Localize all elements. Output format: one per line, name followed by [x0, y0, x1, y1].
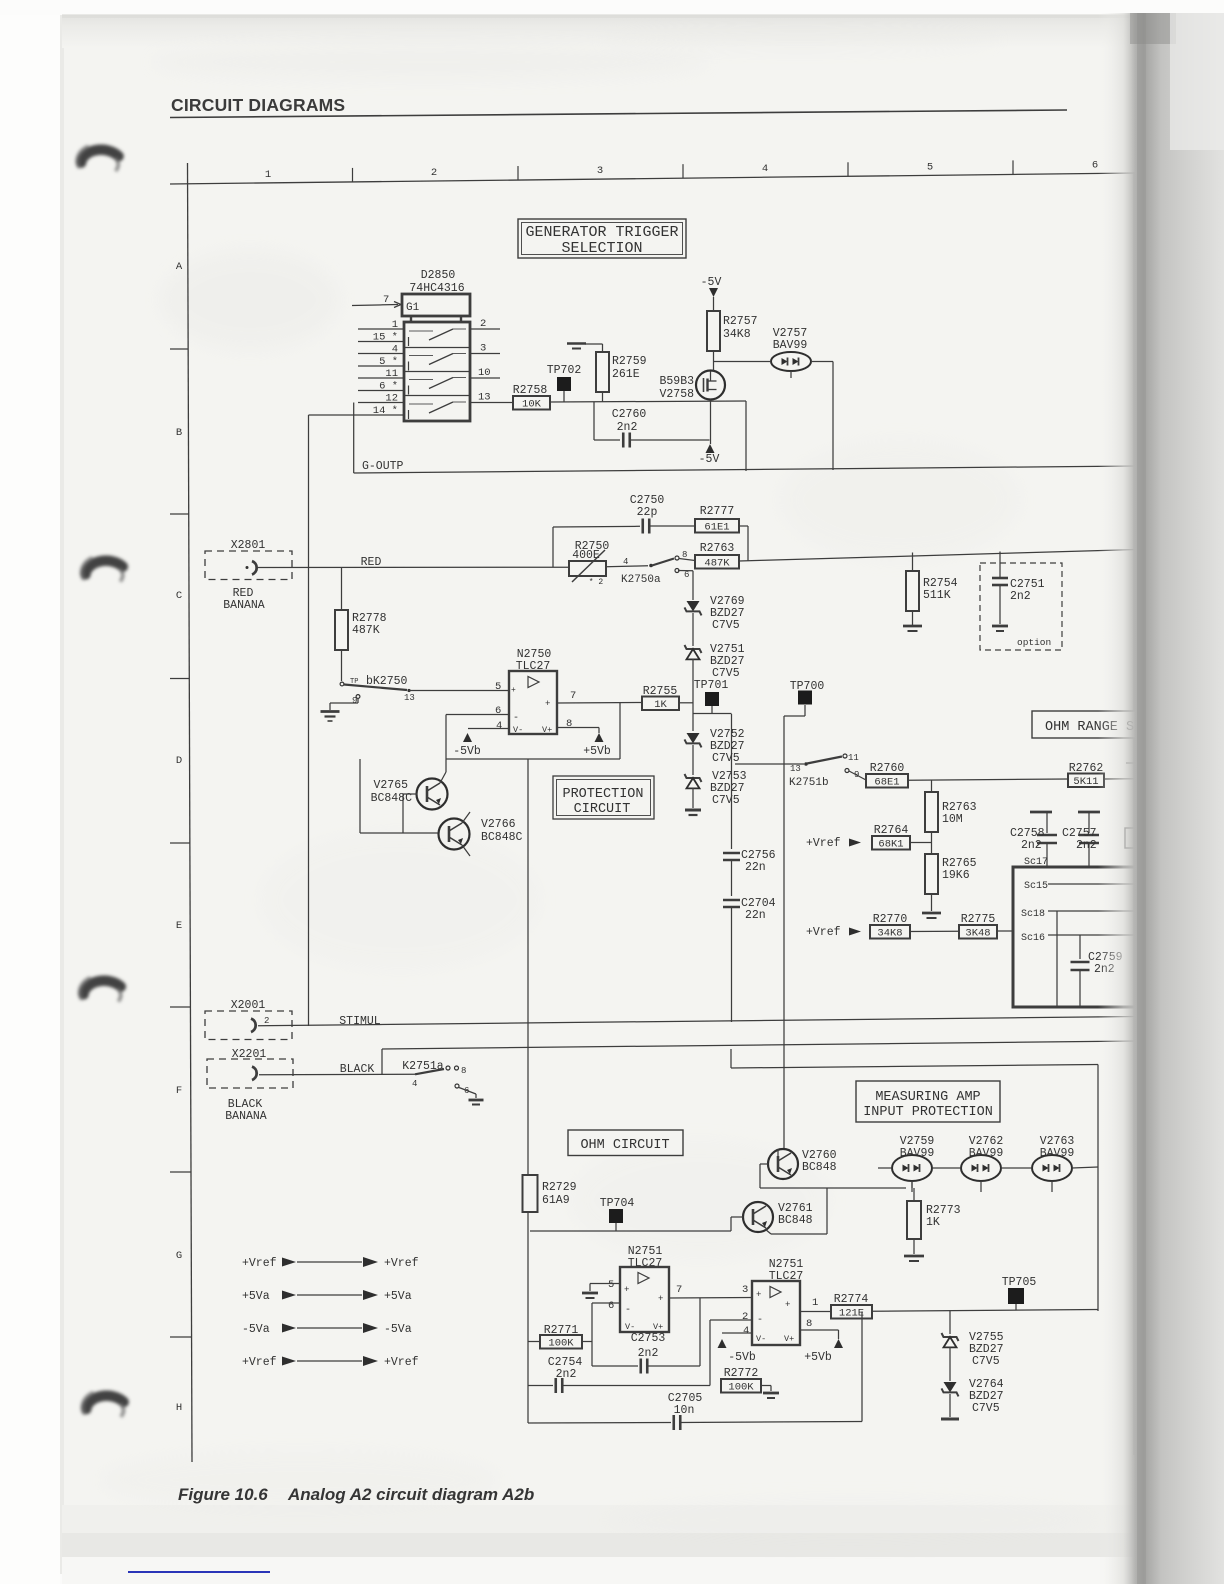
svg-text:22n: 22n: [745, 909, 766, 922]
svg-text:Figure 10.6: Figure 10.6: [178, 1485, 268, 1504]
svg-text:6: 6: [684, 570, 689, 580]
svg-text:2n2: 2n2: [556, 1368, 577, 1381]
svg-text:+Vref: +Vref: [242, 1356, 277, 1369]
svg-text:2n2: 2n2: [1076, 839, 1097, 852]
svg-text:BAV99: BAV99: [969, 1147, 1004, 1160]
svg-text:D2850: D2850: [421, 269, 456, 282]
svg-text:V-: V-: [756, 1334, 766, 1344]
svg-text:G1: G1: [406, 302, 420, 314]
svg-text:5K11: 5K11: [1073, 776, 1098, 788]
svg-text:V+: V+: [784, 1334, 794, 1344]
svg-text:2n2: 2n2: [1010, 590, 1031, 603]
svg-text:3: 3: [480, 343, 486, 355]
svg-text:7: 7: [570, 690, 576, 702]
svg-text:4: 4: [392, 344, 398, 356]
svg-text:-: -: [757, 1315, 763, 1326]
svg-text:11: 11: [848, 753, 859, 763]
svg-text:TP701: TP701: [694, 679, 729, 692]
svg-text:R2759: R2759: [612, 355, 647, 368]
svg-text:V+: V+: [653, 1322, 663, 1332]
svg-text:+Vref: +Vref: [806, 837, 841, 850]
svg-text:option: option: [1017, 637, 1051, 648]
svg-text:10M: 10M: [942, 813, 963, 826]
svg-text:5: 5: [927, 161, 933, 173]
svg-text:5: 5: [608, 1279, 614, 1291]
svg-text:+: +: [785, 1300, 790, 1310]
svg-text:X2801: X2801: [231, 539, 266, 552]
svg-text:TP705: TP705: [1002, 1276, 1037, 1289]
svg-text:68K1: 68K1: [878, 839, 903, 851]
svg-text:2n2: 2n2: [1021, 839, 1042, 852]
svg-text:2: 2: [431, 167, 437, 179]
svg-text:6: 6: [495, 705, 501, 717]
svg-text:22p: 22p: [637, 506, 658, 519]
svg-text:F: F: [176, 1085, 182, 1097]
svg-text:H: H: [176, 1402, 182, 1414]
svg-text:22n: 22n: [745, 861, 766, 874]
svg-text:B59B3: B59B3: [659, 375, 694, 388]
svg-text:10n: 10n: [674, 1404, 695, 1417]
svg-text:3K48: 3K48: [965, 928, 990, 940]
svg-text:R2757: R2757: [723, 315, 758, 328]
svg-text:61E1: 61E1: [704, 522, 729, 534]
svg-text:BC848: BC848: [778, 1214, 813, 1227]
svg-text:2: 2: [264, 1016, 269, 1026]
svg-text:C7V5: C7V5: [972, 1355, 1000, 1368]
svg-text:R2777: R2777: [700, 505, 735, 518]
svg-text:TP702: TP702: [547, 364, 582, 377]
svg-text:Sc15: Sc15: [1024, 881, 1048, 892]
svg-text:4: 4: [496, 720, 502, 732]
svg-text:+: +: [658, 1294, 663, 1304]
svg-text:-: -: [625, 1305, 631, 1316]
svg-text:G-OUTP: G-OUTP: [362, 460, 404, 473]
svg-text:4: 4: [743, 1325, 749, 1337]
svg-text:G: G: [176, 1250, 182, 1262]
svg-text:10K: 10K: [522, 399, 542, 411]
svg-text:487K: 487K: [352, 624, 380, 637]
svg-text:Sc16: Sc16: [1021, 933, 1045, 944]
svg-text:4: 4: [623, 557, 628, 567]
svg-text:1: 1: [265, 169, 271, 181]
svg-text:C7V5: C7V5: [712, 619, 740, 632]
svg-text:6: 6: [1092, 159, 1098, 171]
svg-text:11: 11: [385, 368, 398, 380]
svg-text:R2729: R2729: [542, 1181, 577, 1194]
svg-text:CIRCUIT: CIRCUIT: [574, 802, 631, 817]
svg-text:13: 13: [478, 392, 491, 404]
svg-text:TP: TP: [350, 678, 358, 686]
svg-text:487K: 487K: [704, 558, 730, 570]
svg-text:Sc18: Sc18: [1021, 909, 1045, 920]
svg-text:1: 1: [812, 1297, 818, 1309]
svg-text:34K8: 34K8: [723, 328, 751, 341]
svg-text:SELECTION: SELECTION: [561, 240, 642, 257]
svg-text:+5Vb: +5Vb: [804, 1351, 832, 1364]
svg-text:4: 4: [762, 163, 768, 175]
svg-text:511K: 511K: [923, 589, 951, 602]
svg-text:34K8: 34K8: [877, 928, 902, 940]
svg-text:+: +: [756, 1290, 761, 1300]
svg-text:100K: 100K: [728, 1382, 754, 1394]
svg-text:+Vref: +Vref: [384, 1356, 419, 1369]
svg-text:STIMUL: STIMUL: [339, 1015, 381, 1028]
svg-text:-5Vb: -5Vb: [728, 1351, 756, 1364]
svg-text:68E1: 68E1: [874, 777, 899, 789]
svg-text:+Vref: +Vref: [242, 1257, 277, 1270]
svg-text:BANANA: BANANA: [223, 599, 265, 612]
svg-text:+Vref: +Vref: [384, 1257, 419, 1270]
svg-text:V-: V-: [513, 725, 523, 735]
svg-text:PROTECTION: PROTECTION: [562, 787, 643, 802]
svg-text:15 *: 15 *: [373, 332, 398, 344]
svg-text:C7V5: C7V5: [712, 794, 740, 807]
svg-text:+5Va: +5Va: [384, 1290, 412, 1303]
svg-text:CIRCUIT DIAGRAMS: CIRCUIT DIAGRAMS: [171, 95, 345, 115]
svg-text:BAV99: BAV99: [900, 1147, 935, 1160]
svg-text:6 *: 6 *: [379, 381, 398, 393]
svg-text:+: +: [545, 699, 550, 709]
svg-text:OHM CIRCUIT: OHM CIRCUIT: [580, 1138, 669, 1153]
svg-text:4: 4: [412, 1079, 417, 1089]
svg-text:GENERATOR TRIGGER: GENERATOR TRIGGER: [525, 224, 678, 241]
svg-text:Sc17: Sc17: [1024, 857, 1048, 868]
svg-text:Analog A2 circuit diagram A2b: Analog A2 circuit diagram A2b: [287, 1485, 534, 1504]
svg-text:+5Vb: +5Vb: [583, 745, 611, 758]
svg-text:RED: RED: [361, 556, 382, 569]
svg-text:TP704: TP704: [600, 1197, 635, 1210]
svg-text:14 *: 14 *: [373, 405, 398, 417]
svg-text:INPUT PROTECTION: INPUT PROTECTION: [863, 1105, 993, 1120]
svg-text:BC848: BC848: [802, 1161, 837, 1174]
svg-text:+Vref: +Vref: [806, 926, 841, 939]
svg-text:-5Vb: -5Vb: [453, 745, 481, 758]
svg-text:V-: V-: [625, 1322, 635, 1332]
svg-text:6: 6: [608, 1300, 614, 1312]
svg-text:3: 3: [597, 165, 603, 177]
svg-text:BAV99: BAV99: [1040, 1147, 1075, 1160]
svg-text:bK2750: bK2750: [366, 675, 408, 688]
svg-text:+5Va: +5Va: [242, 1290, 270, 1303]
svg-text:8: 8: [461, 1066, 466, 1076]
svg-text:8: 8: [566, 718, 572, 730]
svg-text:13: 13: [790, 764, 801, 774]
svg-text:V2766: V2766: [481, 818, 516, 831]
svg-text:C: C: [176, 590, 182, 602]
svg-text:C7V5: C7V5: [972, 1402, 1000, 1415]
svg-text:1K: 1K: [654, 699, 667, 711]
svg-text:2: 2: [480, 318, 486, 330]
svg-text:BLACK: BLACK: [340, 1063, 375, 1076]
svg-text:13: 13: [404, 693, 415, 703]
svg-text:261E: 261E: [612, 368, 640, 381]
svg-text:1: 1: [392, 319, 398, 331]
svg-text:BANANA: BANANA: [225, 1110, 267, 1123]
svg-text:V2765: V2765: [373, 779, 408, 792]
svg-text:+: +: [624, 1285, 629, 1295]
svg-text:-5Va: -5Va: [242, 1323, 270, 1336]
svg-text:7: 7: [676, 1284, 682, 1296]
svg-text:-5V: -5V: [701, 276, 722, 289]
svg-text:8: 8: [806, 1318, 812, 1330]
svg-text:100K: 100K: [548, 1338, 574, 1350]
svg-text:K2751b: K2751b: [789, 777, 829, 789]
svg-text:5: 5: [495, 681, 501, 693]
svg-text:* 2: * 2: [589, 578, 604, 587]
svg-text:+: +: [511, 686, 516, 695]
svg-text:12: 12: [385, 393, 398, 405]
svg-text:2n2: 2n2: [638, 1347, 659, 1360]
svg-text:V2758: V2758: [659, 388, 694, 401]
svg-text:D: D: [176, 755, 182, 767]
svg-text:C2753: C2753: [631, 1332, 666, 1345]
svg-text:E: E: [176, 920, 182, 932]
svg-text:2: 2: [742, 1311, 748, 1323]
svg-text:-5Va: -5Va: [384, 1323, 412, 1336]
svg-text:-: -: [513, 713, 519, 724]
svg-text:X2201: X2201: [232, 1048, 267, 1061]
svg-text:V+: V+: [542, 725, 552, 735]
svg-text:BC848C: BC848C: [481, 831, 523, 844]
svg-text:R2763: R2763: [700, 542, 735, 555]
svg-text:C7V5: C7V5: [712, 752, 740, 765]
svg-text:X2001: X2001: [231, 999, 266, 1012]
svg-text:121E: 121E: [839, 1308, 864, 1320]
svg-text:2n2: 2n2: [617, 421, 638, 434]
svg-text:B: B: [176, 427, 182, 439]
svg-text:K2750a: K2750a: [621, 574, 661, 586]
svg-text:C2760: C2760: [612, 408, 647, 421]
svg-text:-5V: -5V: [699, 453, 720, 466]
svg-text:5 *: 5 *: [379, 356, 398, 368]
svg-text:61A9: 61A9: [542, 1194, 570, 1207]
svg-text:3: 3: [742, 1284, 748, 1296]
svg-text:A: A: [176, 261, 183, 273]
svg-text:MEASURING AMP: MEASURING AMP: [875, 1090, 980, 1105]
svg-text:BAV99: BAV99: [773, 339, 808, 352]
svg-text:10: 10: [478, 367, 491, 379]
svg-text:1K: 1K: [926, 1216, 940, 1229]
svg-text:19K6: 19K6: [942, 869, 970, 882]
